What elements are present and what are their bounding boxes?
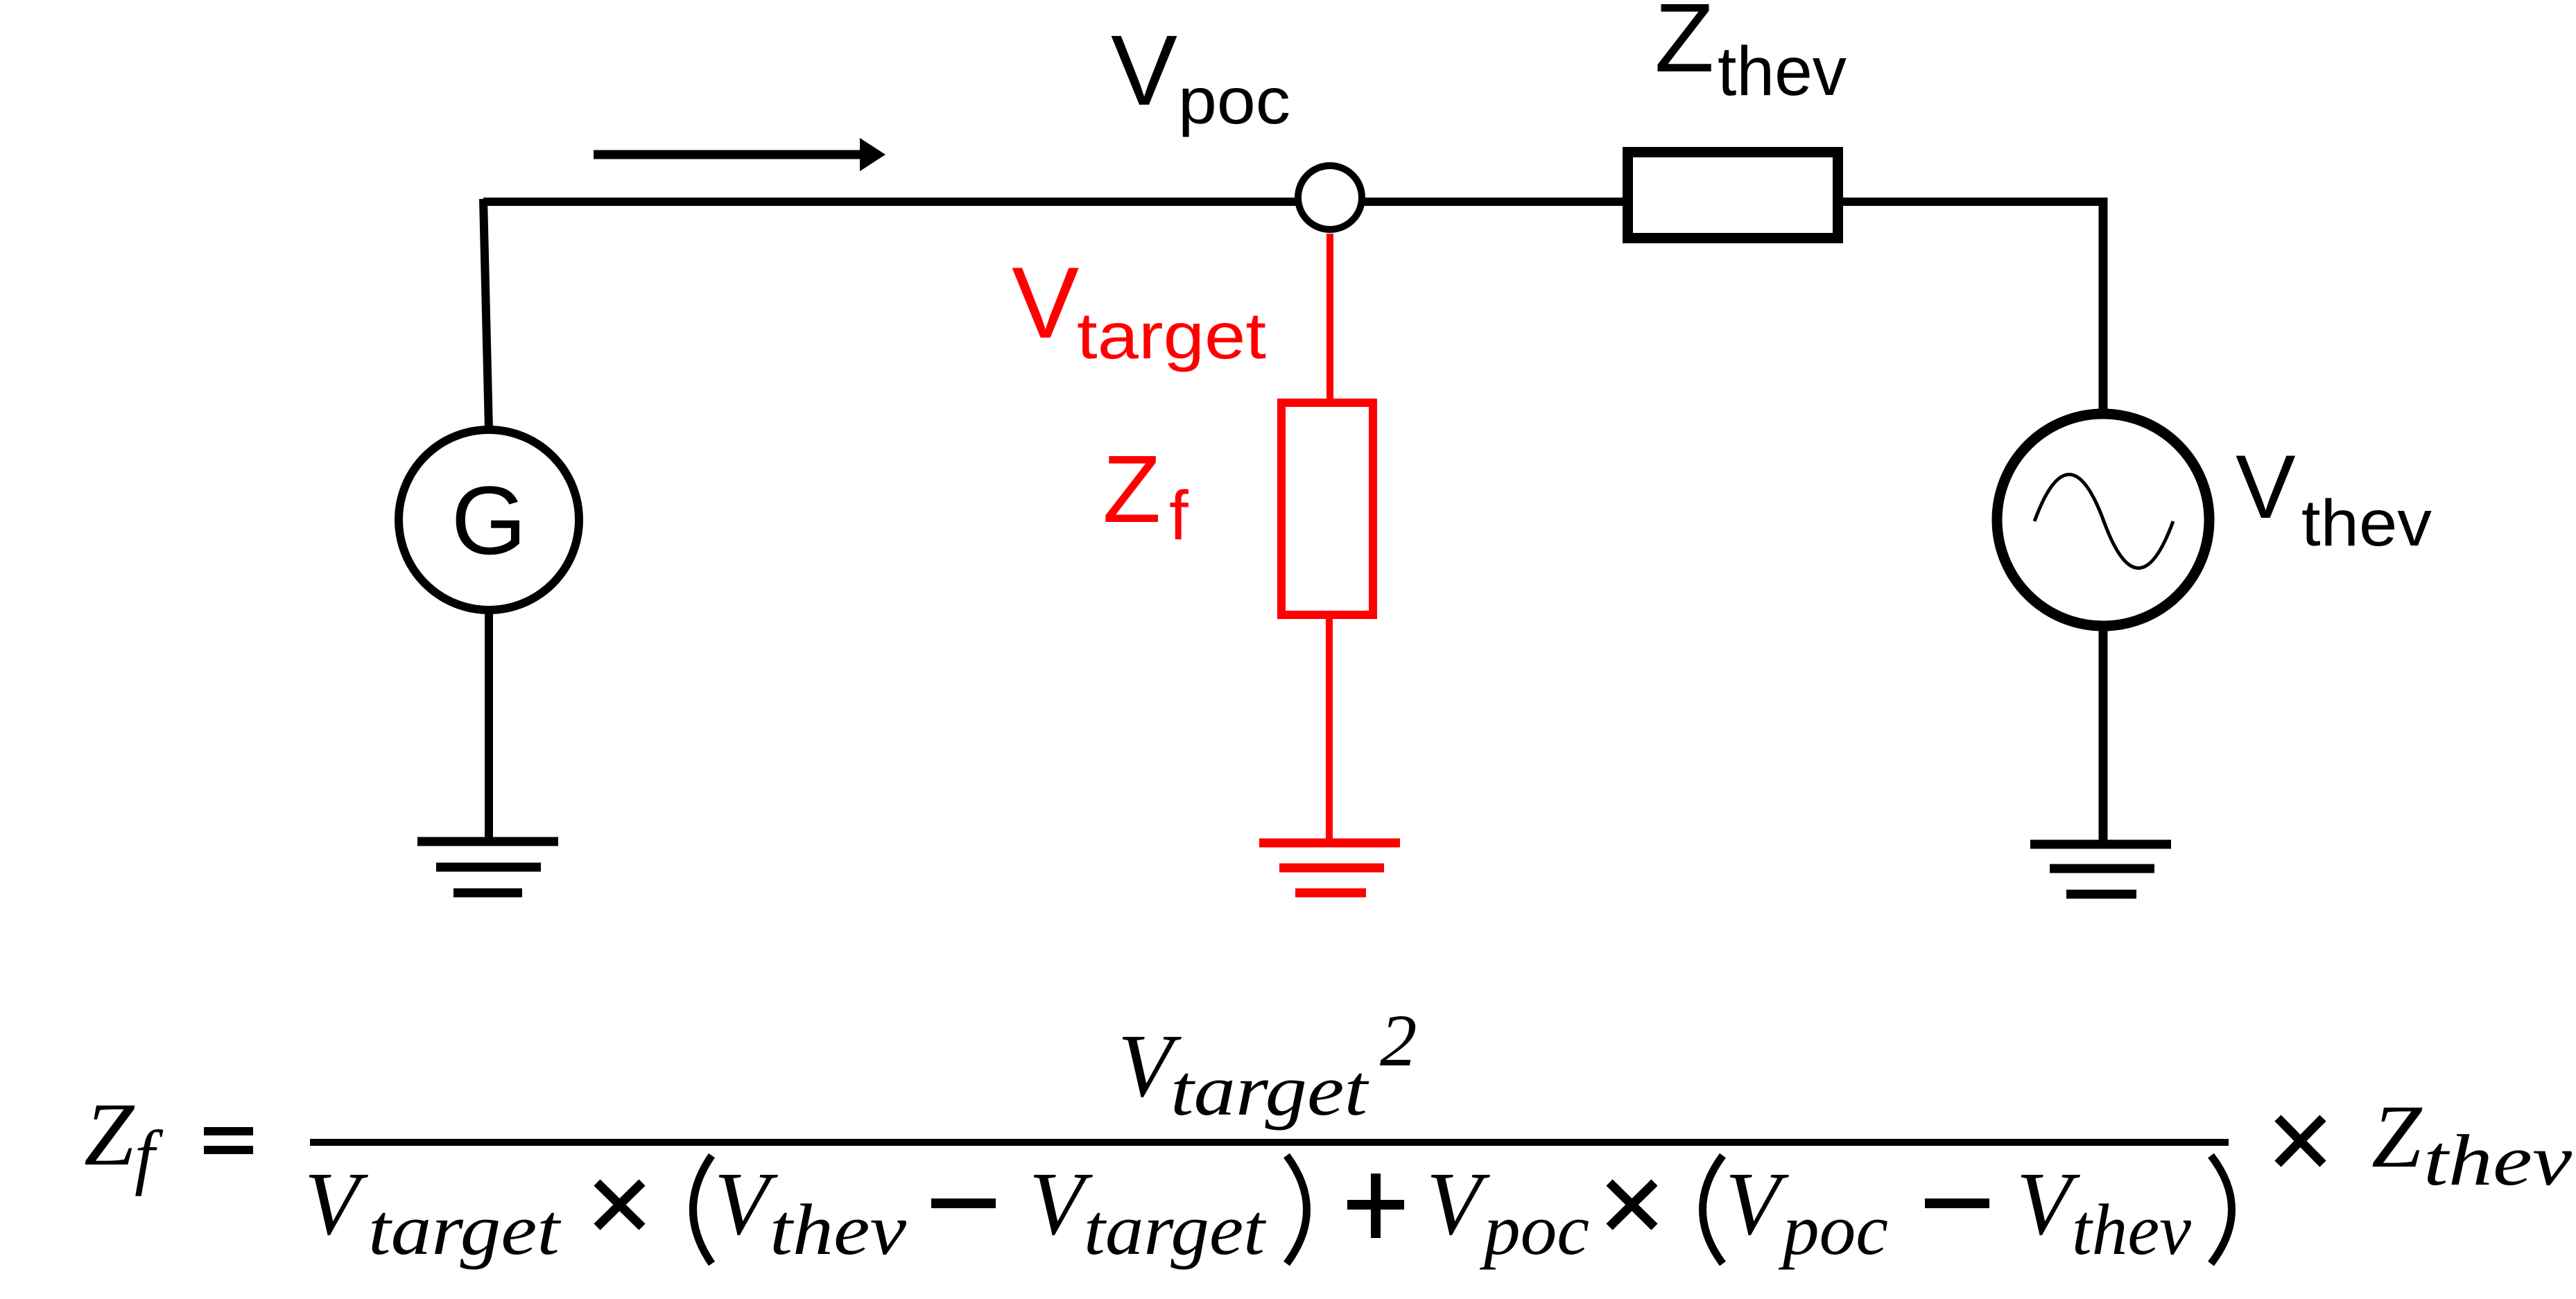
wire source to ground (2099, 626, 2108, 846)
fraction bar (310, 1139, 2229, 1146)
wire main horizontal bus (483, 198, 2107, 206)
minus 1 (931, 1198, 996, 1208)
label Vtarget (1012, 246, 1266, 373)
minus 2 (1925, 1198, 1989, 1208)
svg-text:V: V (1725, 1154, 1789, 1254)
svg-text:V: V (2016, 1154, 2080, 1254)
svg-text:target: target (368, 1189, 562, 1270)
ground right (2030, 844, 2171, 894)
svg-text:poc: poc (1479, 1189, 1589, 1270)
svg-text:thev: thev (1718, 33, 1847, 110)
paren open 2 (1703, 1156, 1723, 1264)
plus (1347, 1174, 1404, 1238)
svg-text:f: f (1169, 477, 1188, 555)
svg-text:target: target (1084, 1189, 1267, 1270)
svg-text:thev: thev (770, 1189, 906, 1270)
svg-text:target: target (1077, 299, 1266, 373)
resistor Zf (1281, 403, 1373, 615)
svg-text:V: V (1012, 246, 1079, 359)
label Zf (1103, 436, 1188, 555)
label Vthev (2236, 436, 2432, 560)
wire red node to Zf (1326, 234, 1333, 401)
numerator Vtarget squared (1118, 1000, 1417, 1131)
times Zthev after fraction (2278, 1087, 2572, 1201)
svg-text:Z: Z (2371, 1087, 2423, 1187)
paren close 2 (2211, 1156, 2232, 1264)
svg-text:Z: Z (84, 1085, 135, 1185)
svg-text:V: V (1111, 15, 1177, 126)
node Vpoc (1298, 166, 1362, 229)
ground left (417, 842, 558, 893)
svg-text:Z: Z (1103, 436, 1161, 543)
equals sign (204, 1127, 253, 1154)
paren open 1 (693, 1156, 712, 1264)
svg-text:V: V (1426, 1154, 1490, 1254)
label Vpoc (1111, 15, 1290, 138)
paren close 1 (1287, 1156, 1307, 1264)
arrow current direction (594, 138, 885, 171)
svg-text:V: V (304, 1154, 368, 1254)
svg-text:Z: Z (1654, 0, 1714, 92)
times 2 (1609, 1183, 1654, 1227)
svg-text:thev: thev (2072, 1189, 2191, 1270)
svg-text:G: G (451, 466, 527, 575)
label Zthev (1654, 0, 1847, 110)
svg-text:thev: thev (2301, 487, 2432, 560)
resistor Zthev (1628, 152, 1838, 238)
svg-text:poc: poc (1778, 1189, 1888, 1270)
svg-text:thev: thev (2423, 1119, 2572, 1201)
svg-text:V: V (714, 1154, 778, 1254)
wire red Zf to ground (1326, 619, 1333, 844)
denominator (304, 1154, 2232, 1270)
svg-text:poc: poc (1178, 64, 1290, 138)
generator G (399, 430, 579, 610)
times 1 (597, 1183, 642, 1227)
formula Zf equals (84, 1085, 164, 1196)
svg-text:2: 2 (1380, 1000, 1417, 1082)
wire generator to ground (485, 612, 493, 843)
wire left vertical from corner to generator (483, 199, 489, 430)
wire right vertical to source (2099, 198, 2108, 416)
svg-text:V: V (2236, 436, 2296, 537)
ground red (1259, 843, 1400, 893)
source Vthev (1997, 414, 2209, 626)
svg-text:target: target (1170, 1049, 1369, 1131)
